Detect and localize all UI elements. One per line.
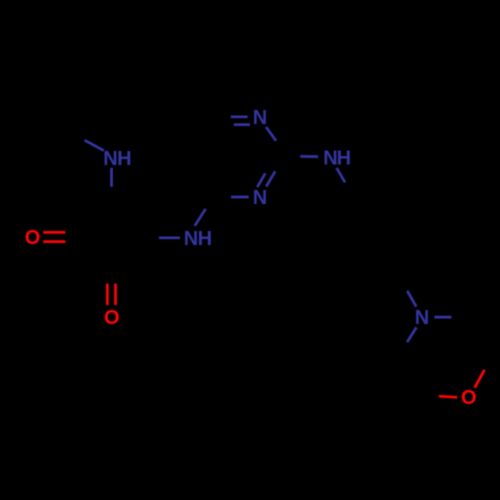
bond NH(methyl) to CH3 (85, 140, 104, 150)
bond O2=C2 squaramide carbonyl line b (114, 284, 117, 305)
bond morpholine N to ring C6m (407, 327, 416, 342)
bond O1=C1 squaramide carbonyl line b (43, 240, 65, 243)
svg-text:N: N (253, 187, 267, 209)
bond NH(aryl) to squaramide C4 (159, 236, 180, 239)
bond O2=C2 squaramide carbonyl line a (106, 284, 109, 305)
bond morpholine O to ring C5m (439, 396, 457, 397)
bond NH(aryl) to pyrimidine C4 (195, 209, 206, 226)
svg-text:N: N (415, 307, 429, 329)
atom label NH squaramide-pyrimidine (184, 228, 212, 250)
bond pyrimidine N3-C4 (231, 196, 249, 199)
atom label NH methylamino (103, 148, 131, 170)
bond pyrimidine C2 to NH(anilino) (300, 155, 318, 158)
svg-text:H: H (337, 147, 351, 169)
bond morpholine O to ring C3m (475, 370, 485, 388)
bond pyrimidine N1=C6 inner line (234, 123, 250, 126)
svg-text:O: O (461, 387, 477, 409)
svg-text:N: N (103, 148, 117, 170)
svg-text:H: H (117, 148, 131, 170)
svg-text:O: O (104, 307, 120, 329)
bond morpholine N to phenyl C4' (407, 291, 416, 307)
bond pyrimidine C2=N3 inner line (257, 173, 265, 187)
svg-text:N: N (253, 107, 267, 129)
bond O1=C1 squaramide carbonyl line a (43, 231, 65, 234)
bond pyrimidine C2=N3 main line (266, 171, 275, 186)
atom label NH anilino (323, 147, 351, 169)
bond pyrimidine N1-C2 (266, 127, 276, 141)
svg-text:N: N (184, 228, 198, 250)
svg-text:O: O (25, 227, 41, 249)
bond NH(methyl) to squaramide C3 (110, 168, 113, 187)
bond pyrimidine N1=C6 main line (231, 115, 248, 118)
svg-text:H: H (198, 228, 212, 250)
svg-text:N: N (323, 147, 337, 169)
bond morpholine N to ring C2m (434, 316, 451, 319)
bond NH(anilino) to phenyl C1' (337, 168, 346, 183)
